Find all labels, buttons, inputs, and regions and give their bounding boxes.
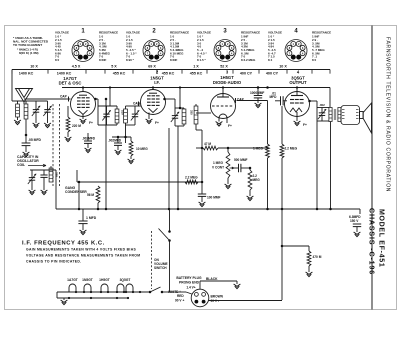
svg-text:400 CY: 400 CY	[266, 72, 279, 76]
antenna	[16, 89, 33, 103]
svg-text:2.2 MEG: 2.2 MEG	[185, 176, 198, 180]
filament bus wire	[57, 291, 150, 293]
svg-text:52 X: 52 X	[220, 65, 228, 69]
svg-text:150 V: 150 V	[350, 219, 359, 223]
ground below 100 MMF	[199, 202, 206, 207]
ground below grid leak	[247, 196, 254, 201]
wire brown lead	[209, 300, 282, 302]
svg-text:CHASSIS -C-196: CHASSIS -C-196	[368, 208, 375, 275]
svg-text:CHASSIS TO PIN INDICATED.: CHASSIS TO PIN INDICATED.	[26, 260, 81, 264]
svg-text:8 1.5 *: 8 1.5 *	[197, 58, 207, 62]
svg-text:.002MFD: .002MFD	[108, 138, 122, 142]
wire IF1 feed from B+	[109, 88, 111, 107]
resistor 220 ohm grid	[67, 106, 69, 117]
ground below 470 ohm	[306, 272, 313, 277]
tube V4 3Q5GT envelope	[285, 92, 310, 117]
svg-text:.05 MFD: .05 MFD	[28, 138, 42, 142]
svg-text:PRONG END: PRONG END	[179, 280, 200, 284]
ground below 10 MEG	[128, 159, 135, 164]
V3 plate bar	[217, 96, 229, 98]
wire V3 diode to 1 MEG	[237, 100, 268, 102]
wire to 470 ohm	[282, 245, 309, 247]
V4 grids dashes	[290, 99, 294, 101]
filament loop	[126, 284, 133, 292]
wire x282 battery minus drop	[281, 209, 283, 300]
antenna coil L1	[16, 104, 20, 117]
svg-text:2.2 MEG: 2.2 MEG	[285, 147, 298, 151]
svg-text:220 M: 220 M	[72, 124, 81, 128]
IF1 secondary loop	[126, 105, 136, 107]
wire V4 plate to output	[310, 100, 318, 102]
ground below V3	[216, 122, 223, 127]
svg-text:69 X: 69 X	[148, 65, 156, 69]
ground below AVC cap	[115, 150, 122, 155]
wire V1 plate cap to B+	[82, 88, 84, 92]
svg-text:I.F.: I.F.	[154, 80, 160, 85]
wire IF2 secondary to V3 grid	[195, 104, 197, 106]
svg-text:1400 KC: 1400 KC	[19, 72, 34, 76]
tone capacitor .002 MFD across primary	[317, 107, 329, 109]
resistor 56 M	[96, 186, 100, 203]
filament loop	[84, 284, 91, 292]
svg-text:1.4 V+: 1.4 V+	[186, 285, 195, 289]
svg-text:10 X: 10 X	[279, 65, 287, 69]
oscillator coil 335	[49, 168, 53, 182]
filament loop	[69, 284, 76, 292]
wire B- bus y209	[56, 208, 360, 210]
svg-text:CAP: CAP	[60, 95, 68, 99]
wire IF1 secondary bottom drop	[125, 125, 127, 143]
ground below C1	[33, 123, 40, 128]
battery plug body	[191, 289, 209, 307]
gang condenser dashed link	[52, 104, 54, 186]
svg-text:.002: .002	[319, 103, 325, 107]
wire antenna lead	[23, 102, 25, 104]
tube socket 4 pin diagram	[285, 40, 307, 62]
ground below L1	[14, 120, 21, 125]
oscillator trimmer capacitor	[31, 170, 33, 178]
capacitor 1000MMF on B+	[257, 86, 260, 89]
svg-text:8 4: 8 4	[268, 58, 273, 62]
IF1 secondary trimmer	[134, 106, 136, 114]
svg-text:CONDENSER: CONDENSER	[65, 190, 87, 194]
IF1 primary loop	[98, 105, 117, 107]
svg-text:MODEL EF-451: MODEL EF-451	[378, 209, 385, 267]
wire plate drop x317	[316, 101, 318, 209]
svg-text:8 0: 8 0	[55, 58, 60, 62]
switch S2 battery	[149, 291, 152, 294]
wire V2 plate pin to IF2	[165, 98, 176, 100]
svg-text:COIL: COIL	[17, 163, 25, 167]
antenna coil L2	[24, 104, 28, 119]
tube socket 1 pin diagram	[72, 40, 94, 62]
svg-text:4.5 X: 4.5 X	[72, 65, 81, 69]
svg-text:SWITCH: SWITCH	[154, 266, 167, 270]
tuning capacitor C2 (osc)	[47, 101, 49, 110]
V4 filament zigzag	[290, 108, 302, 112]
wire black lead	[199, 281, 201, 289]
ground below V1 filament	[82, 115, 84, 120]
svg-text:10 X: 10 X	[30, 65, 38, 69]
ground below .05 MFD	[23, 152, 30, 157]
wire T1 bottom drop	[330, 122, 332, 210]
svg-text:DIODE-AUDIO: DIODE-AUDIO	[213, 80, 242, 85]
resistor 2.2 MEG on AVC line	[185, 180, 198, 184]
ground below V4	[296, 112, 298, 121]
resistor 1 MEG diode load	[267, 101, 269, 145]
svg-text:10 MEG: 10 MEG	[136, 147, 148, 151]
ground below 220 ohm	[65, 137, 72, 142]
svg-text:5 X: 5 X	[111, 65, 117, 69]
tube socket 3 pin diagram	[214, 40, 236, 62]
speaker field frame	[341, 106, 360, 125]
wire IF2 secondary bottom	[195, 124, 197, 130]
svg-text:BROWN: BROWN	[211, 295, 224, 299]
ground below oscillator trimmer	[29, 190, 36, 195]
wire x79 drop to bus	[78, 182, 80, 209]
wire switch to battery	[169, 241, 171, 293]
svg-text:V CONT: V CONT	[212, 165, 224, 169]
svg-text:CAP: CAP	[133, 102, 141, 106]
filament loop	[101, 284, 108, 292]
svg-text:RED: RED	[177, 294, 184, 298]
svg-text:F+: F+	[89, 121, 93, 125]
svg-text:3Q5GT: 3Q5GT	[120, 278, 131, 282]
svg-text:8 90 *: 8 90 *	[126, 58, 135, 62]
scale ticks	[11, 70, 13, 74]
svg-text:1400 KC: 1400 KC	[57, 72, 72, 76]
resistor 10 MEG AVC	[130, 137, 132, 141]
svg-text:8 INF: 8 INF	[170, 58, 178, 62]
svg-text:500 MMF: 500 MMF	[234, 158, 248, 162]
ground below padder	[41, 190, 48, 195]
svg-text:.002MFD: .002MFD	[82, 137, 96, 141]
svg-text:1000MMF: 1000MMF	[250, 91, 264, 95]
wire V2 plate cap to B+	[152, 88, 154, 90]
IF2 secondary coil 335	[194, 106, 198, 124]
svg-text:100 MMF: 100 MMF	[207, 196, 221, 200]
node x202	[201, 181, 204, 184]
tube V3 1H5GT envelope	[211, 94, 236, 119]
IF1 secondary coil	[124, 109, 128, 123]
svg-text:1H5GT: 1H5GT	[99, 278, 110, 282]
tube V2 1N5GT envelope	[141, 90, 166, 115]
svg-text:455 KC: 455 KC	[190, 72, 203, 76]
ground on black lead	[234, 284, 241, 289]
svg-text:MEG: MEG	[253, 178, 261, 182]
svg-text:8(00 K) (1 6M): 8(00 K) (1 6M)	[19, 51, 39, 55]
wire switch feed	[169, 209, 171, 231]
ground below V2 filament	[148, 113, 150, 120]
V4 plate bar	[291, 95, 303, 97]
IF1 primary trimmer	[106, 106, 108, 114]
wire IF1 secondary to V2 grid	[135, 105, 141, 107]
node junction at L2 bottom	[25, 134, 28, 137]
switch linkage dashed	[151, 231, 153, 289]
svg-text:8 0: 8 0	[312, 58, 317, 62]
svg-text:DET & OSC: DET & OSC	[59, 81, 82, 86]
ground at filament return	[63, 298, 65, 300]
svg-text:335: 335	[55, 172, 59, 177]
wire y182 AVC line	[77, 181, 202, 183]
svg-text:GAIN MEASUREMENTS TAKEN WITH 4: GAIN MEASUREMENTS TAKEN WITH 4 VOLTS FIX…	[26, 248, 136, 252]
svg-text:1 MFD: 1 MFD	[86, 216, 97, 220]
tube socket 2 pin diagram	[143, 40, 165, 62]
svg-text:BATTERY PLUG: BATTERY PLUG	[176, 276, 202, 280]
svg-text:OUTPUT: OUTPUT	[289, 80, 307, 85]
wire x169 drop	[168, 128, 170, 209]
capacitor 100 MMF	[198, 193, 206, 195]
switch S1 on volume control	[168, 230, 171, 233]
V3 filament arc	[219, 114, 227, 118]
wire white lead	[170, 292, 192, 294]
wire coupling node down	[281, 106, 283, 144]
wire V1 cathode drop x106	[105, 99, 107, 209]
ground below volume control	[225, 184, 232, 189]
svg-text:FARNSWORTH TELEVISION & RAD: FARNSWORTH TELEVISION & RADIO CORPORATIO…	[385, 37, 391, 192]
ground below 1000MMF	[255, 103, 262, 108]
svg-text:47 M: 47 M	[204, 142, 211, 146]
svg-text:8 2.2 MEG: 8 2.2 MEG	[241, 58, 256, 62]
speaker voice coil	[360, 112, 364, 119]
volume control 1 MEG	[227, 147, 230, 150]
speaker cone	[363, 103, 371, 133]
svg-text:F+: F+	[155, 121, 159, 125]
resistor 470 ohm	[307, 251, 311, 266]
wire IF2 feed from B+	[179, 88, 181, 109]
svg-text:455 KC: 455 KC	[113, 72, 126, 76]
ground below electrolytic	[354, 232, 361, 237]
svg-text:1 X: 1 X	[193, 65, 199, 69]
svg-text:90 V -: 90 V -	[211, 299, 220, 303]
svg-text:470 M: 470 M	[313, 255, 322, 259]
svg-text:TO TUBE ELEMENT: TO TUBE ELEMENT	[13, 43, 42, 47]
schematic right border	[371, 26, 373, 310]
svg-text:56 M: 56 M	[87, 193, 94, 197]
tuning capacitor C1 (ant)	[35, 101, 37, 110]
resistor 47 M	[196, 147, 202, 149]
svg-text:I.F. FREQUENCY 455 K.C.: I.F. FREQUENCY 455 K.C.	[22, 241, 105, 247]
wire AVC node	[112, 136, 131, 138]
ground below 1 MFD	[80, 230, 87, 235]
wire B+ bus	[62, 87, 330, 89]
wire oscillator tank top	[30, 169, 56, 171]
oscillator padder capacitor	[43, 170, 45, 175]
svg-text:F+: F+	[228, 124, 232, 128]
resistor 2.2 MEG grid	[280, 144, 284, 158]
IF2 loop wires	[175, 107, 184, 109]
resistor 2.2 MEG grid leak	[249, 167, 252, 170]
output transformer T1	[329, 108, 332, 122]
filament loop	[117, 284, 124, 292]
filament junction dots	[75, 291, 77, 293]
wire B+ to T1 primary	[329, 88, 331, 108]
capacitor 6-8MFD 150 V electrolytic	[359, 209, 361, 214]
svg-text:BLACK: BLACK	[206, 277, 218, 281]
IF2 primary coil	[182, 109, 186, 124]
svg-text:1 MEG: 1 MEG	[213, 161, 223, 165]
svg-text:VOLTAGE AND RESISTANCE MEASURE: VOLTAGE AND RESISTANCE MEASUREMENTS TAKE…	[26, 254, 140, 258]
svg-text:8 INF: 8 INF	[99, 58, 107, 62]
svg-text:1A7GT: 1A7GT	[67, 278, 78, 282]
tube V1 1A7GT envelope	[71, 92, 96, 117]
V3 grid dashed	[212, 105, 234, 107]
gain scale line	[12, 69, 330, 71]
IF2 primary trimmer	[174, 108, 176, 116]
svg-text:335: 335	[190, 110, 194, 115]
wire grid lead line	[24, 98, 66, 100]
svg-text:1 MEG: 1 MEG	[253, 147, 263, 151]
IF1 primary coil	[115, 109, 119, 123]
svg-text:1N5GT: 1N5GT	[82, 278, 93, 282]
ground below C2	[44, 123, 51, 128]
ground below .002MFD	[85, 148, 92, 153]
svg-text:MFD: MFD	[270, 95, 278, 99]
wire x178 drop	[177, 126, 179, 209]
svg-text:F+: F+	[303, 123, 307, 127]
svg-text:90 V +: 90 V +	[175, 298, 184, 302]
svg-text:400 CY: 400 CY	[240, 72, 253, 76]
wire V1 plate pin to IF1	[96, 98, 99, 100]
